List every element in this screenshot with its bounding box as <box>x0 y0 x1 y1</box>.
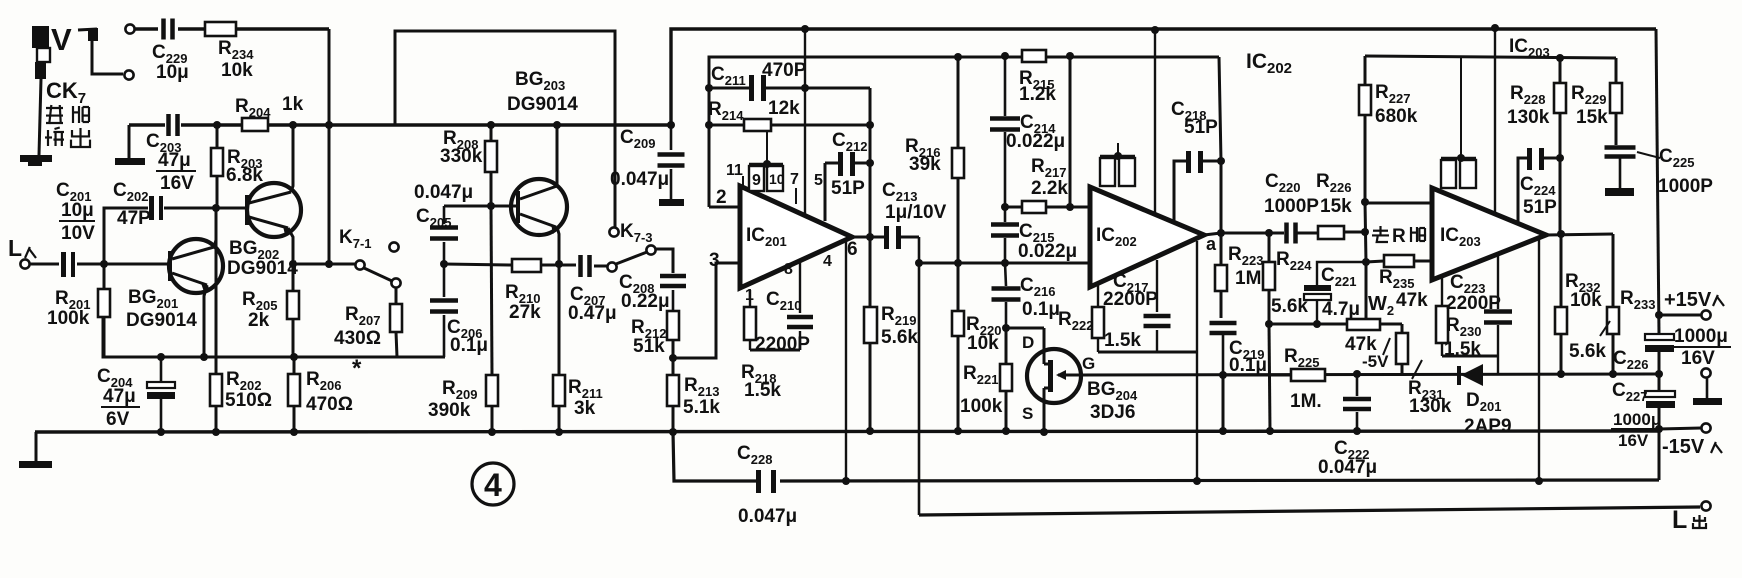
wire R224 gnd leg <box>1269 324 1270 431</box>
svg-text:10: 10 <box>769 171 785 187</box>
ground mid terminal <box>1693 378 1722 405</box>
svg-text:100k: 100k <box>960 396 1003 417</box>
wire plus15 <box>1659 314 1701 317</box>
resistor R229 <box>1571 58 1622 145</box>
op-amp IC202 <box>1090 187 1204 287</box>
svg-text:a: a <box>1206 234 1217 254</box>
capacitor C206 <box>430 264 488 357</box>
svg-text:5.6k: 5.6k <box>1569 341 1606 362</box>
junction gnd R221 <box>1002 427 1010 435</box>
capacitor C204 <box>97 357 175 432</box>
resistor R214 <box>708 98 870 131</box>
wire pin3 label <box>709 250 720 271</box>
svg-text:0.047μ: 0.047μ <box>414 182 473 203</box>
wire C223 drop <box>1497 356 1499 374</box>
junction power rail IC202 <box>1151 26 1159 34</box>
label 1000u 16V plus <box>1672 326 1731 369</box>
svg-text:1000μ: 1000μ <box>1674 326 1728 347</box>
svg-text:12k: 12k <box>768 98 800 119</box>
resistor R221 <box>960 328 1012 431</box>
terminal minus15 <box>1662 423 1722 458</box>
terminal plus15 <box>1664 289 1724 320</box>
resistor R202 <box>210 208 272 432</box>
pin boxes IC203 <box>1441 58 1476 188</box>
junction R215 right <box>1066 52 1074 60</box>
junction gnd R213 <box>669 428 677 436</box>
junction R214 right <box>866 121 874 129</box>
junction C224 right <box>1556 154 1564 162</box>
svg-text:5.6k: 5.6k <box>881 327 918 348</box>
wire ground rail <box>35 431 1659 432</box>
label pin 5 <box>814 172 823 189</box>
junction mid terminal node <box>1655 370 1663 378</box>
ground main left <box>19 432 52 468</box>
svg-text:6V: 6V <box>106 409 130 430</box>
resistor R225 <box>1223 346 1325 412</box>
svg-text:L: L <box>8 235 22 261</box>
svg-text:390k: 390k <box>428 400 471 421</box>
resistor R232 <box>1555 234 1602 374</box>
resistor R211 <box>553 264 603 432</box>
wire BG202 collector <box>291 125 293 192</box>
junction gnd C222 <box>1353 427 1361 435</box>
svg-text:1000P: 1000P <box>1658 176 1713 197</box>
wire input <box>30 263 59 266</box>
label node a <box>1206 234 1217 254</box>
svg-text:1000P: 1000P <box>1264 196 1319 217</box>
junction x329 mid rail <box>325 121 333 129</box>
resistor R201 <box>47 264 110 357</box>
svg-text:4: 4 <box>484 467 502 503</box>
junction gnd R202 <box>212 428 220 436</box>
resistor R222 <box>1058 284 1141 352</box>
svg-text:-15V: -15V <box>1662 436 1705 458</box>
capacitor C224 <box>1518 148 1560 222</box>
junction R217 left <box>1001 203 1009 211</box>
junction C204 top <box>157 353 165 361</box>
junction C211 left <box>705 84 713 92</box>
wire Lout row <box>919 507 1700 515</box>
capacitor C229 <box>152 19 189 84</box>
resistor R231 <box>1396 324 1452 417</box>
svg-text:G: G <box>1082 354 1095 373</box>
junction R224 bottom <box>1265 320 1273 328</box>
wire R230 C223 bottom <box>1442 355 1498 358</box>
wire C203 left leg <box>128 125 131 158</box>
svg-text:2AP9: 2AP9 <box>1464 416 1512 437</box>
junction minus15 node <box>1655 425 1663 433</box>
svg-text:51P: 51P <box>1523 197 1557 218</box>
junction C216 bottom <box>1002 324 1010 332</box>
capacitor C228 <box>737 443 797 527</box>
svg-text:47k: 47k <box>1396 290 1428 311</box>
wire top rail right <box>671 29 1656 125</box>
junction C218 right <box>1217 157 1225 165</box>
wire C202 branch <box>104 208 148 264</box>
junction R227 node <box>1361 198 1369 206</box>
wire pin2 <box>709 187 740 208</box>
pin boxes 9 10 <box>749 131 785 191</box>
svg-text:1.5k: 1.5k <box>744 380 781 401</box>
terminal L-out <box>1672 501 1711 534</box>
label IC202 top <box>1246 50 1292 77</box>
svg-text:5.6k: 5.6k <box>1271 296 1308 317</box>
wire BG204 source <box>1022 400 1044 432</box>
svg-text:130k: 130k <box>1507 107 1550 128</box>
resistor R208 <box>440 125 497 206</box>
junction wiper node <box>1362 258 1370 266</box>
wire power stub IC202 <box>1154 30 1156 214</box>
capacitor C226 <box>1613 334 1674 391</box>
junction R228 top <box>1556 54 1564 62</box>
svg-text:-5V: -5V <box>1362 352 1389 371</box>
svg-text:15k: 15k <box>1576 107 1608 128</box>
svg-text:+15V: +15V <box>1664 289 1712 311</box>
junction gnd R209 <box>488 428 496 436</box>
terminal mid <box>1701 368 1710 377</box>
wire W2 row <box>1269 323 1347 326</box>
junction gnd R224 <box>1266 427 1274 435</box>
junction C221 bottom <box>1313 320 1321 328</box>
junction base node <box>212 204 220 212</box>
wire R227 leg down <box>1365 202 1366 262</box>
svg-text:0.022μ: 0.022μ <box>1018 241 1077 262</box>
junction C215 bottom <box>1001 259 1009 267</box>
svg-text:1M.: 1M. <box>1290 391 1322 412</box>
svg-text:1μ/10V: 1μ/10V <box>885 202 947 223</box>
wire gate row <box>1080 374 1659 375</box>
svg-text:0.1μ: 0.1μ <box>450 335 488 356</box>
resistor R224 <box>1263 233 1312 324</box>
junction R215 left <box>1001 52 1009 60</box>
resistor R220 <box>952 263 1001 431</box>
junction IC203 output <box>1546 230 1613 238</box>
label 去R路 <box>1372 226 1426 247</box>
svg-text:16V: 16V <box>160 173 194 194</box>
wire IC203 pin4 drop <box>1538 238 1540 481</box>
svg-text:0.047μ: 0.047μ <box>610 169 669 190</box>
junction IC203 pin4 row <box>1535 477 1543 485</box>
svg-text:3DJ6: 3DJ6 <box>1090 402 1135 423</box>
svg-text:10μ: 10μ <box>61 200 94 221</box>
resistor R226 <box>1316 171 1366 239</box>
svg-text:330k: 330k <box>440 146 483 167</box>
svg-text:47μ: 47μ <box>158 150 191 171</box>
svg-text:1.5k: 1.5k <box>1104 330 1141 351</box>
wire R218 C210 bottom <box>750 349 800 352</box>
junction R204 right <box>289 121 297 129</box>
wire output row IC202 <box>1221 232 1284 235</box>
resistor R215 <box>1019 50 1056 105</box>
wire C213 down to Lout <box>918 237 921 515</box>
svg-text:0.022μ: 0.022μ <box>1006 131 1065 152</box>
svg-text:10k: 10k <box>967 333 999 354</box>
potentiometer W2 <box>1345 293 1402 371</box>
capacitor C223 <box>1446 255 1512 356</box>
wire BG201 emitter <box>204 285 207 357</box>
svg-text:D: D <box>1022 333 1034 352</box>
junction gnd R211 <box>555 428 563 436</box>
resistor R209 <box>428 206 498 432</box>
svg-text:4: 4 <box>823 253 832 270</box>
junction C209 top <box>667 121 675 129</box>
svg-text:10k: 10k <box>221 60 253 81</box>
svg-text:0.47μ: 0.47μ <box>568 303 617 324</box>
svg-text:3k: 3k <box>574 398 596 419</box>
resistor R223 <box>1215 233 1263 318</box>
op-amp IC201 <box>740 186 852 288</box>
junction emitter rail <box>200 353 208 361</box>
svg-text:1.2k: 1.2k <box>1019 84 1056 105</box>
svg-text:10μ: 10μ <box>156 62 189 83</box>
svg-text:R: R <box>1392 226 1406 247</box>
capacitor C211 <box>709 60 870 101</box>
junction R216 bottom <box>954 259 962 267</box>
svg-text:0.22μ: 0.22μ <box>621 291 670 312</box>
wire emitter rail <box>103 317 445 357</box>
svg-text:*: * <box>352 355 362 382</box>
junction gnd BG204 <box>1040 428 1048 436</box>
wire mid rail <box>129 123 671 126</box>
wire C216 to drain <box>1006 327 1044 330</box>
svg-text:2200P: 2200P <box>1103 289 1158 310</box>
capacitor C203 <box>146 114 196 194</box>
svg-text:11: 11 <box>726 162 743 179</box>
junction gnd R219 <box>866 427 874 435</box>
svg-text:47P: 47P <box>117 208 151 229</box>
resistor R230 <box>1436 278 1481 360</box>
terminal L-in <box>8 235 36 269</box>
junction power rail IC203 <box>1491 24 1499 32</box>
junction R205 bottom <box>290 353 298 361</box>
wire emitter row to K7-1 <box>293 263 356 266</box>
label G <box>1082 354 1095 373</box>
wire right edge <box>1656 29 1659 334</box>
resistor R203 <box>211 125 263 208</box>
capacitor C222 <box>1318 374 1377 478</box>
svg-text:15k: 15k <box>1320 196 1352 217</box>
resistor R234 <box>205 22 254 81</box>
capacitor C213 <box>882 180 947 249</box>
svg-text:51P: 51P <box>1184 117 1218 138</box>
wire pin4 drop <box>823 241 846 481</box>
svg-text:100k: 100k <box>47 308 90 329</box>
junction gnd R206 <box>290 428 298 436</box>
capacitor C202 <box>113 180 163 229</box>
wire BG201 collector <box>214 209 216 247</box>
wire C228 row <box>673 432 1659 481</box>
svg-text:2: 2 <box>716 187 727 208</box>
capacitor C212 <box>825 130 870 221</box>
wire BG203 emitter <box>557 227 559 264</box>
junction R208 top <box>487 121 495 129</box>
svg-text:10V: 10V <box>61 223 95 244</box>
svg-text:1M: 1M <box>1235 268 1261 289</box>
label 线路 <box>46 105 90 124</box>
op-amp IC203 <box>1432 188 1546 280</box>
transistor BG202 <box>227 183 301 279</box>
capacitor C201 <box>56 180 95 277</box>
svg-text:DG9014: DG9014 <box>507 94 578 115</box>
capacitor C205 <box>414 182 473 264</box>
label CK7 <box>46 78 86 107</box>
junction R233 bottom <box>1609 370 1617 378</box>
svg-text:10k: 10k <box>1570 290 1602 311</box>
resistor R219 <box>864 237 918 431</box>
pin boxes IC202 <box>1100 143 1135 186</box>
resistor R218 <box>741 287 781 401</box>
label pin 11 <box>726 162 743 188</box>
svg-text:27k: 27k <box>509 302 541 323</box>
svg-text:5.1k: 5.1k <box>683 397 720 418</box>
label 1000u 16V minus <box>1611 410 1661 450</box>
resistor R205 <box>242 264 299 357</box>
transistor BG201 <box>126 239 223 331</box>
svg-text:130k: 130k <box>1409 396 1452 417</box>
junction R232 bottom <box>1557 370 1565 378</box>
wire power stub IC203 <box>1494 28 1496 214</box>
svg-text:470P: 470P <box>762 60 807 81</box>
svg-text:6: 6 <box>847 239 858 260</box>
svg-text:470Ω: 470Ω <box>306 394 353 415</box>
wire C219 gnd leg <box>1222 375 1225 431</box>
svg-text:510Ω: 510Ω <box>225 390 272 411</box>
capacitor C210 <box>755 261 813 355</box>
wire row263 to IC202 <box>919 262 1090 265</box>
svg-text:7: 7 <box>790 171 799 188</box>
svg-text:0.047μ: 0.047μ <box>738 506 797 527</box>
ground CK7 <box>20 79 52 166</box>
junction BG203 collector rail <box>553 121 561 129</box>
wire top rail left <box>135 27 329 30</box>
junction K7-1 node <box>325 260 333 268</box>
wire BG203 collector <box>556 125 559 186</box>
svg-text:6.8k: 6.8k <box>226 165 263 186</box>
svg-text:1000μ: 1000μ <box>1613 410 1661 429</box>
capacitor C227 <box>1612 380 1675 429</box>
resistor R207 <box>334 287 402 357</box>
connector CK7 jack body <box>32 22 72 79</box>
junction C212 right <box>866 159 874 167</box>
resistor R235 <box>1366 255 1432 311</box>
wire feedback row 56 <box>709 57 1219 207</box>
wire IC203 upper pin <box>1365 202 1432 205</box>
svg-text:39k: 39k <box>909 154 941 175</box>
svg-text:47μ: 47μ <box>103 386 136 407</box>
switch K7-1 <box>339 227 401 288</box>
label circled 4 <box>472 463 514 505</box>
capacitor C220 <box>1264 171 1319 244</box>
junction input node <box>100 260 108 268</box>
junction pin4 C228 row <box>842 477 850 485</box>
resistor R212 <box>631 311 679 358</box>
svg-text:DG9014: DG9014 <box>126 310 197 331</box>
resistor R233 <box>1569 234 1655 374</box>
resistor R216 <box>905 57 964 263</box>
svg-text:0.047μ: 0.047μ <box>1318 457 1377 478</box>
transistor BG203 <box>507 69 578 235</box>
svg-text:2k: 2k <box>248 310 270 331</box>
transistor BG204 <box>1027 349 1138 423</box>
junction C222 top <box>1353 370 1361 378</box>
wire C202 to BG202 base <box>164 207 247 210</box>
wire CK7 to top rail contact <box>78 28 98 41</box>
svg-text:4.7μ: 4.7μ <box>1322 299 1360 320</box>
svg-text:8: 8 <box>784 261 793 278</box>
switch K7-3 <box>607 221 655 272</box>
resistor R227 <box>1359 56 1418 202</box>
label pin 7 <box>790 171 799 204</box>
junction row263 start <box>915 259 923 267</box>
terminal top contact <box>125 24 134 33</box>
junction gnd C219 <box>1219 427 1227 435</box>
junction power rail <box>801 25 809 33</box>
junction BG202 emitter row <box>289 260 297 268</box>
terminal lower contact <box>124 70 133 79</box>
wire feedback row 56 right <box>1365 56 1616 58</box>
diode D201 <box>1457 364 1512 437</box>
svg-text:L: L <box>1672 506 1687 534</box>
junction signal node <box>440 260 448 268</box>
junction R208 bottom <box>487 202 495 210</box>
label 输出 <box>45 128 90 148</box>
wire BG203 box <box>395 31 615 227</box>
junction R212 bottom <box>669 354 677 362</box>
resistor R217 <box>1005 156 1090 213</box>
svg-text:9: 9 <box>752 172 761 189</box>
svg-text:2.2k: 2.2k <box>1031 178 1068 199</box>
junction BG203 emitter row <box>555 260 563 268</box>
junction IC201 output <box>852 233 884 241</box>
svg-text:51P: 51P <box>831 178 865 199</box>
wire BG202 emitter <box>288 228 293 264</box>
resistor R210 <box>444 259 559 323</box>
junction gnd C204 <box>157 428 165 436</box>
svg-text:1k: 1k <box>282 94 304 115</box>
capacitor C221 <box>1304 262 1366 324</box>
junction plus15 node <box>1655 311 1663 319</box>
svg-text:51k: 51k <box>633 336 665 357</box>
wire right edge bottom <box>1658 429 1661 480</box>
resistor R204 <box>235 94 304 131</box>
wire to pin3 <box>673 263 740 358</box>
capacitor C219 <box>1210 321 1268 376</box>
junction R214 left <box>705 121 713 129</box>
svg-text:2200P: 2200P <box>755 334 810 355</box>
junction C211 power cross <box>801 84 809 92</box>
capacitor C216 <box>992 263 1061 328</box>
junction IC202 pin4 row <box>1193 477 1201 485</box>
capacitor C208 <box>619 249 686 312</box>
label pin 6 <box>847 239 858 260</box>
resistor R206 <box>288 355 362 432</box>
wire BG203 base <box>444 205 517 208</box>
junction R217 right <box>1066 203 1074 211</box>
wire BG204 drain <box>1022 328 1044 352</box>
wire C211 right leg <box>869 88 872 237</box>
resistor R213 <box>667 358 720 432</box>
capacitor C218 <box>1171 99 1221 222</box>
svg-text:430Ω: 430Ω <box>334 328 381 349</box>
svg-text:0.1μ: 0.1μ <box>1022 299 1060 320</box>
wire minus15 <box>1659 428 1701 429</box>
svg-text:1: 1 <box>745 287 754 304</box>
wire C218 output leg <box>1219 57 1221 233</box>
junction IC202 output <box>1204 229 1225 237</box>
wire IC202 pin4 drop <box>1196 241 1198 481</box>
svg-text:5: 5 <box>814 172 823 189</box>
svg-text:V: V <box>51 22 72 57</box>
